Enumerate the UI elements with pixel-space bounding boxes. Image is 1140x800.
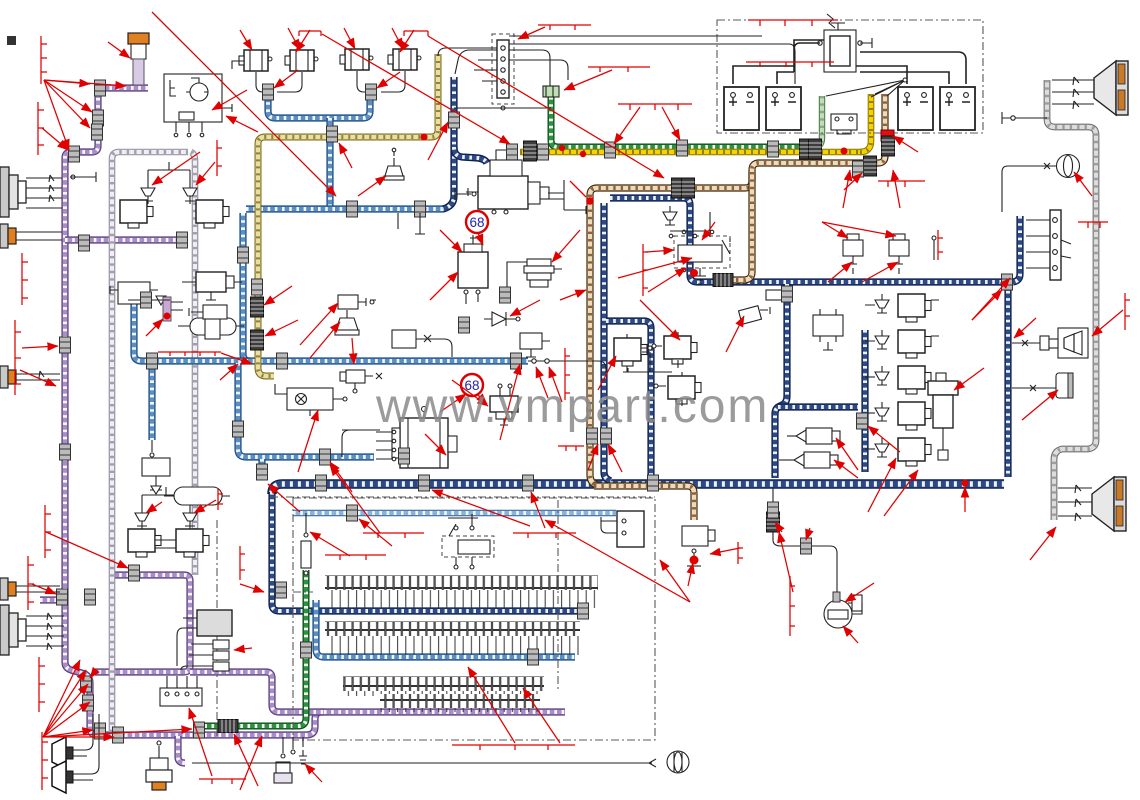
valve column right: row4	[865, 402, 931, 430]
connector purple d	[69, 146, 80, 162]
speaker top right	[1052, 61, 1128, 115]
motor box group B	[652, 332, 697, 368]
horn leads	[232, 61, 405, 92]
harness navy inner loop left	[775, 284, 787, 478]
fuel filter pill	[164, 487, 230, 505]
terminal stub purple	[71, 175, 75, 179]
callout bracket mid-left	[158, 352, 221, 356]
leader lamp right	[1074, 172, 1092, 196]
callout bracket top B	[404, 31, 428, 36]
red dot brown corner	[586, 197, 594, 205]
leader horn box	[1014, 318, 1036, 338]
harness navy fuse row1 rail	[279, 610, 588, 612]
harness navy tall vertical x604	[604, 203, 611, 481]
connectors navy x604 pair	[587, 428, 598, 444]
callout bracket left2	[38, 102, 44, 155]
speaker top-left small orange	[0, 224, 62, 248]
strip wiring right	[454, 36, 795, 108]
connector blue drop	[238, 247, 249, 263]
connector purple g	[57, 589, 68, 605]
connector bus x773	[768, 502, 779, 518]
harness purple main left	[65, 88, 565, 735]
leader filter	[108, 42, 130, 58]
leaders navy x604 connectors	[588, 444, 598, 470]
harness yellow main	[520, 151, 862, 153]
callout v bracket gauge	[790, 576, 795, 636]
red dot navy bus	[962, 480, 969, 487]
harness pale vertical	[112, 152, 188, 732]
leader starter conn	[428, 122, 448, 160]
callout bracket horn box	[1125, 293, 1130, 330]
bell sensor x347	[335, 310, 359, 335]
harness blue comb drop	[329, 118, 331, 209]
callout bracket top A	[299, 31, 321, 36]
callout v bracket x240	[240, 546, 245, 580]
alternator center	[376, 407, 457, 469]
svg-text:www.vmpart.com: www.vmpart.com	[375, 380, 769, 433]
connector row2 rail	[528, 649, 539, 665]
harness lightgreen battery lead	[813, 96, 822, 148]
relay box right of fuse rows	[601, 511, 644, 547]
horn B4	[388, 49, 421, 70]
leader brown vert	[560, 290, 586, 300]
connector purple f	[60, 444, 71, 460]
harness blue upper bus	[246, 208, 444, 210]
valve column right: row5	[865, 438, 931, 466]
leader bus link conn	[268, 484, 300, 512]
harness blue main bus	[134, 304, 528, 361]
connectors on navy bus	[316, 475, 327, 491]
gauge assembly bottom	[767, 488, 863, 628]
sensor cluster mid-left	[182, 272, 242, 300]
callout bracket gy mid	[618, 104, 692, 110]
leader fan TL	[44, 80, 90, 84]
leader y513 conn	[359, 519, 392, 546]
leaders loop connector	[972, 290, 1002, 320]
relay box in battery bay	[831, 114, 857, 134]
leaders yellow right	[843, 170, 850, 208]
harness brown lower branch	[720, 172, 752, 280]
thin lines center low	[342, 430, 380, 457]
leaders bus circles	[536, 367, 548, 398]
battery GB3	[898, 87, 933, 130]
leader 68B	[440, 394, 466, 412]
harness yellow battery lead	[860, 94, 871, 152]
harness navy ignition drop x454	[443, 77, 454, 209]
leader mid-left	[146, 319, 163, 336]
motor box ML A	[128, 529, 161, 557]
connector navy loop top	[1002, 274, 1013, 290]
callout bracket strip A	[538, 25, 591, 30]
leaders watermark area	[425, 434, 446, 455]
connector fuse rail	[578, 603, 589, 619]
callout bracket left3	[22, 253, 28, 305]
harness blue alternator feed	[238, 363, 374, 457]
callout bracket battery inner	[746, 62, 834, 67]
leader left spk	[20, 370, 56, 386]
bracket brown comp	[738, 542, 743, 564]
callout bracket bottom center	[452, 745, 575, 750]
motor box group A	[614, 334, 652, 372]
pressure switch B	[779, 452, 838, 468]
leaders fuse area	[330, 465, 380, 533]
dash-dot inner left	[216, 520, 218, 738]
harness purple speaker stub	[40, 596, 63, 603]
connector starter top	[449, 112, 460, 128]
harness blue link to navy bus	[261, 459, 263, 480]
pale yellow top hook	[438, 48, 497, 56]
looms yellow x258	[251, 297, 264, 317]
leader brown loom	[893, 136, 918, 152]
callout bracket bottom	[199, 779, 246, 784]
harness navy big loop right	[610, 198, 1008, 477]
red dot yellow	[421, 134, 428, 141]
horn B1	[239, 50, 272, 71]
leaders fuse long	[545, 520, 690, 602]
leader fuse bottom B	[523, 688, 560, 743]
ECU big gray	[177, 610, 232, 671]
callout bracket relay center	[643, 244, 648, 296]
connector x773	[766, 290, 790, 300]
harness blue left drop	[243, 213, 250, 361]
air dryer	[928, 373, 958, 460]
leaders pressure switches	[836, 438, 858, 470]
valve pair mid-left B	[183, 507, 197, 526]
fuel filter orange top-left	[128, 33, 149, 85]
leader blue comb	[339, 143, 352, 168]
small mark top-left corner	[7, 36, 16, 45]
horn B3	[340, 49, 373, 70]
harness brown along bus	[594, 486, 694, 520]
harness blue fuse row2 rail	[316, 600, 575, 657]
connector center a	[500, 287, 511, 303]
leader inner conn	[868, 426, 900, 452]
big fan bottom-left	[39, 657, 45, 712]
callout bracket TR	[748, 20, 838, 26]
valve pair top-left B	[183, 182, 197, 201]
leader bus red dot	[964, 487, 966, 512]
leader left2	[42, 128, 68, 150]
T terminal near ignition drop	[455, 188, 476, 200]
speaker bottom-left big	[0, 605, 64, 655]
connector purple m	[129, 565, 140, 581]
resistor green top	[301, 513, 311, 575]
speaker bottom-left small orange	[0, 578, 60, 600]
relay box top-left	[164, 74, 232, 137]
leaders bottom relay	[189, 708, 212, 776]
horn leaders	[240, 30, 252, 50]
battery compartment dashed box	[717, 20, 983, 133]
lamp bottom center	[667, 751, 689, 773]
plug bottom orange	[146, 741, 172, 790]
connector link b6b	[257, 464, 268, 480]
connector green-purple	[194, 722, 205, 738]
leader plug bottom	[305, 764, 322, 782]
green connector	[543, 86, 559, 97]
leader red dot bottom	[688, 563, 693, 586]
long leader to gy conn	[428, 36, 664, 178]
ignition coil	[458, 238, 488, 304]
relay right	[813, 309, 843, 350]
connector on y513	[347, 505, 358, 521]
connectors blue upper bus	[347, 201, 358, 217]
callout bracket low-left-c	[558, 446, 584, 451]
harness purple to fuse row3	[190, 672, 324, 712]
motor box TL A	[120, 200, 153, 228]
leader sensor below bus	[452, 380, 488, 406]
connector purple l	[113, 727, 124, 743]
connector strip right	[1026, 210, 1071, 280]
battery GB2	[766, 87, 801, 130]
harness purple branch y240	[65, 239, 186, 241]
horn B2	[285, 50, 318, 71]
callout bracket ML	[218, 488, 223, 510]
fuse row2	[325, 622, 580, 655]
leaders gauge conns	[779, 532, 793, 592]
connector center b	[459, 317, 470, 333]
pressure sensor mid-left2	[189, 305, 227, 319]
connector inner loop	[857, 413, 868, 429]
connector purple j	[83, 695, 94, 711]
wiper motor assembly	[275, 384, 347, 416]
leader green loom	[234, 734, 258, 786]
connector on y456	[399, 448, 410, 464]
horn box right	[1012, 328, 1088, 358]
harness navy starter branch	[454, 147, 487, 163]
small post right	[932, 236, 936, 260]
harness blue horn comb	[268, 95, 370, 118]
connector navy v x281	[276, 582, 287, 598]
callout bracket strip B	[588, 67, 650, 72]
connector purple h	[85, 589, 96, 605]
connector gy right	[768, 141, 779, 157]
flasher relay dashed	[442, 514, 494, 569]
valve pair mid-left A	[135, 507, 149, 526]
gauge bottom lamp line	[192, 759, 656, 767]
harness brown main	[590, 94, 885, 485]
thin leads under b2	[398, 213, 425, 234]
component right small	[1012, 373, 1073, 398]
battery GB4	[940, 87, 975, 130]
fuse row1	[325, 576, 598, 608]
misc red left mid	[22, 346, 58, 348]
link b5 to box	[151, 440, 153, 458]
red dot blue bus	[420, 206, 427, 213]
dash-dot link lines	[270, 497, 655, 592]
fuel filter capsule mid	[178, 314, 244, 339]
callout bracket TLv	[217, 140, 222, 176]
relay dashed center	[674, 230, 730, 284]
leader bus conn	[220, 364, 238, 380]
connectors main bus	[147, 353, 158, 369]
connector green v	[301, 642, 312, 658]
harness navy x1020 upper	[1013, 216, 1020, 282]
speaker bottom right	[1058, 477, 1126, 531]
harness purple stub bottom	[178, 736, 185, 763]
motor box ML B	[176, 529, 209, 557]
harness pale vertical 2	[191, 152, 195, 575]
motor box group C	[654, 372, 701, 406]
leaders TL relay	[212, 90, 247, 110]
battery wiring	[733, 40, 966, 84]
valve pair top-left A	[141, 182, 155, 201]
sensor x742	[739, 306, 770, 325]
looms brown y188	[672, 178, 685, 198]
speaker top-left big	[0, 167, 62, 217]
leaders yellow looms	[264, 286, 292, 305]
harness navy inner link	[778, 406, 858, 408]
callout bracket left6	[28, 556, 34, 610]
leaders gy connectors	[614, 107, 640, 144]
brown end component	[682, 526, 715, 566]
68 label A	[466, 211, 488, 245]
loom yellow end	[524, 141, 537, 161]
valve column right: row1	[865, 294, 939, 322]
harness lightblue fuse feed y513	[293, 512, 616, 514]
connector yellow end	[507, 144, 518, 160]
leader brown comp	[710, 548, 740, 554]
relay bottom-left	[160, 676, 202, 706]
sensor C center	[340, 370, 382, 393]
harness green bottom	[200, 570, 306, 726]
connector gy mid1	[605, 142, 616, 158]
loom green bottom	[218, 720, 238, 733]
valve top right B	[889, 234, 909, 274]
bus junctions	[532, 359, 536, 363]
leader diode	[510, 300, 540, 316]
motor box TL B	[196, 200, 229, 228]
horn speaker bottom-left 2	[52, 714, 99, 793]
connector yellow x258	[252, 279, 263, 295]
harness navy inner vertical x865	[864, 330, 866, 472]
long red diagonal	[152, 12, 336, 196]
fuse panel dashed box	[293, 498, 655, 740]
center tree wiring	[628, 352, 672, 372]
tl valve wiring	[70, 162, 190, 204]
leaders ML valves	[146, 502, 162, 513]
leaders relay center	[646, 250, 674, 252]
lamp circle top right	[1002, 155, 1080, 213]
leaders mid column	[598, 356, 616, 390]
strip wiring left	[455, 50, 497, 81]
connector pair mid-left	[128, 292, 170, 308]
red battery connector	[881, 130, 894, 141]
connector purple a	[95, 80, 106, 96]
connector strip X1 top	[492, 34, 514, 104]
callout bracket x938	[938, 230, 943, 260]
long leader to yellow conn	[322, 34, 510, 144]
harness gray right	[1047, 80, 1096, 520]
starter motor	[466, 150, 549, 214]
connector purple c	[92, 124, 103, 140]
red dot yellow start	[580, 151, 586, 157]
pressure stack	[507, 259, 562, 292]
sensor below bus	[490, 384, 518, 425]
harness green top bus	[551, 97, 814, 147]
thin lead ign coil	[472, 235, 474, 240]
connector purple k	[95, 723, 106, 739]
valve box x134	[110, 282, 166, 305]
bell sensor x394	[384, 148, 404, 180]
leaders valve col bottom	[868, 458, 896, 512]
connector purple i	[81, 676, 92, 692]
horn speaker bottom-left 1	[52, 714, 93, 769]
svg-text:68: 68	[469, 215, 484, 230]
thin tree right of starter	[548, 180, 586, 214]
sensor pair x347 upper	[338, 295, 376, 309]
red dot green start	[559, 145, 565, 151]
diode center	[484, 312, 520, 326]
fuse row3	[343, 677, 544, 712]
leaders TL valves	[152, 152, 200, 185]
connector purple b	[93, 110, 104, 126]
harness blue drop x155	[151, 366, 153, 440]
callout bracket TL	[41, 36, 47, 84]
68 label B	[461, 374, 487, 404]
connector navy inner top	[782, 286, 793, 302]
leader ECU	[234, 648, 252, 650]
valve column right: row3	[865, 366, 931, 394]
leader speaker BR	[1030, 527, 1056, 560]
valve column right: row2	[865, 330, 939, 358]
leader sensor x742	[726, 316, 744, 352]
callout bracket battery-right	[878, 181, 925, 187]
inner dash divider	[557, 500, 559, 692]
connector horns 2	[366, 84, 377, 100]
purple tap with red dot	[163, 297, 183, 321]
leaders horn connectors	[274, 70, 298, 88]
leader comp right	[1022, 390, 1058, 420]
leaders center sensors	[300, 303, 338, 345]
red dot relay ground	[690, 269, 698, 277]
leader pressure stack	[552, 230, 580, 262]
harness purple mid-low branch	[95, 575, 190, 672]
callout brackets fuse	[363, 533, 424, 538]
connector comb	[327, 126, 338, 142]
connector purple e	[60, 337, 71, 353]
callout right mid	[1078, 222, 1108, 228]
zener diode center	[663, 206, 710, 238]
switch box above wiper	[392, 330, 452, 357]
harness navy fuse left drop	[272, 492, 279, 611]
sensor center low	[520, 333, 550, 357]
speaker mid-left small orange	[0, 366, 60, 388]
callout bracket left4	[15, 320, 21, 395]
leader air dryer	[954, 368, 984, 390]
thin line y118 right	[1002, 112, 1047, 124]
leader resistor	[310, 532, 350, 556]
pressure switch A	[787, 428, 840, 444]
red dot yellow right	[841, 148, 848, 155]
ml valve wiring	[142, 487, 190, 548]
leaders ign coil	[440, 230, 462, 252]
callout bracket left5	[45, 505, 51, 558]
starter relay block	[818, 14, 872, 72]
callout bracket x565	[565, 348, 570, 400]
leader fuse bottom A	[468, 667, 515, 743]
valve top right A	[843, 234, 863, 274]
loom brown battery	[882, 136, 895, 156]
bus thin continuation	[528, 361, 606, 373]
leaders gauge	[845, 583, 874, 602]
connector horns 1	[263, 84, 274, 100]
loom brown y163	[864, 156, 877, 176]
box with diode left	[142, 458, 170, 494]
harness pale-yellow loop	[258, 54, 438, 376]
plugs bottom small	[274, 737, 307, 783]
connector gy mid2	[677, 140, 688, 156]
leaders valve fan right	[822, 222, 848, 238]
